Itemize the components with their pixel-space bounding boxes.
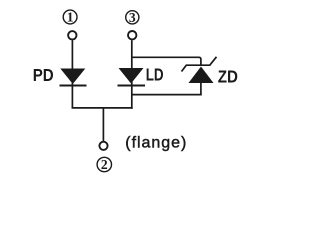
svg-text:1: 1 bbox=[67, 10, 74, 25]
svg-text:LD: LD bbox=[146, 65, 164, 85]
wire bus to flange terminal bbox=[102, 107, 104, 141]
photodiode PD bbox=[60, 69, 87, 86]
pin 1 terminal bbox=[68, 31, 76, 39]
svg-text:PD: PD bbox=[33, 65, 54, 85]
pin 2 flange terminal bbox=[99, 142, 107, 150]
wire pin3 to bus bbox=[131, 40, 133, 108]
pin 3 circled label bbox=[126, 10, 139, 25]
pin 3 terminal bbox=[128, 31, 136, 39]
svg-text:2: 2 bbox=[101, 157, 108, 172]
svg-text:ZD: ZD bbox=[218, 66, 238, 86]
zener diode ZD bbox=[182, 57, 217, 83]
wire pin1 to bus bbox=[71, 40, 73, 108]
wire right rail lower bbox=[200, 83, 202, 95]
pin 2 circled label bbox=[97, 157, 111, 172]
wire top rail bbox=[132, 57, 201, 66]
pin 1 circled label bbox=[63, 10, 77, 25]
svg-text:3: 3 bbox=[129, 10, 136, 25]
wire bus bbox=[72, 107, 133, 109]
svg-text:(flange): (flange) bbox=[125, 135, 186, 152]
wire bottom rail bbox=[132, 94, 202, 96]
laser diode LD bbox=[118, 68, 146, 86]
